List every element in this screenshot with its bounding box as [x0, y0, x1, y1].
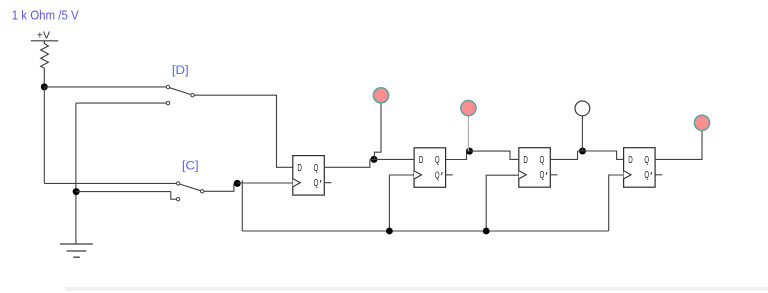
- node B: [73, 188, 80, 195]
- wire clock bus riser to U3: [486, 175, 519, 231]
- switch C top contact: [177, 182, 180, 185]
- svg-text:D: D: [523, 155, 528, 166]
- ground: [60, 244, 93, 257]
- wire switch D lower contact left: [76, 102, 166, 104]
- node A (resistor output): [41, 83, 48, 90]
- D flip-flop U4: [624, 148, 663, 188]
- LED L2 (red): [461, 101, 476, 116]
- svg-text:[C]: [C]: [182, 159, 199, 173]
- D flip-flop U2: [414, 148, 453, 188]
- svg-text:Q: Q: [540, 155, 545, 166]
- faint bottom bar: [65, 287, 768, 291]
- wire clock bus riser to U2: [389, 175, 414, 231]
- wire LED2 to node Q2 (gray): [467, 116, 469, 151]
- switch C lever: [180, 184, 201, 191]
- wire U1 Q to node Q1: [324, 159, 370, 167]
- clock bus: [242, 230, 608, 232]
- switch D common contact: [191, 94, 194, 97]
- node C (clock net): [234, 180, 241, 187]
- switch D lever: [170, 88, 191, 95]
- svg-text:Q: Q: [435, 170, 440, 181]
- wire node Q3 to U4 D input: [578, 151, 624, 159]
- svg-text:D: D: [297, 163, 302, 174]
- LED L1 (red): [373, 88, 388, 103]
- wire switch D common right: [194, 95, 293, 167]
- svg-text:Q: Q: [540, 170, 545, 181]
- wire clock bus riser to U4: [609, 175, 624, 231]
- LED L4 (red): [694, 115, 709, 130]
- wire down to node B and ground: [75, 103, 77, 244]
- svg-text:[D]: [D]: [172, 63, 189, 77]
- svg-text:1 k Ohm /5 V: 1 k Ohm /5 V: [12, 8, 79, 23]
- wire to switch C top contact: [44, 182, 176, 184]
- wire LED1 to node Q1: [374, 103, 381, 159]
- svg-text:Q: Q: [314, 178, 319, 189]
- svg-text:Q: Q: [314, 163, 319, 174]
- wire node A down: [43, 87, 45, 183]
- D flip-flop U1: [293, 156, 332, 196]
- junction bus/U2 clock: [386, 228, 393, 235]
- wire LED3 to node Q3: [581, 116, 583, 151]
- switch C lower contact: [176, 198, 179, 201]
- LED L3 (white/off): [575, 101, 590, 116]
- wire switch C common to node C: [204, 183, 234, 191]
- node Q1: [371, 156, 378, 163]
- power supply +V bar: [31, 40, 59, 42]
- svg-text:+V: +V: [37, 31, 51, 42]
- wire U3 Q to node Q3: [550, 151, 577, 159]
- junction bus/U3 clock: [483, 228, 490, 235]
- wire node Q1 to U2 D input: [370, 158, 414, 160]
- wire node C down to clock bus: [241, 180, 243, 231]
- wire U2 Q to node Q2: [446, 151, 467, 159]
- wire node Q2 to U3 D input: [467, 151, 519, 159]
- wire node B right: [76, 191, 171, 193]
- switch D top contact: [166, 85, 169, 88]
- wire node C to U1 clock: [237, 182, 292, 184]
- switch C common contact: [201, 190, 204, 193]
- wire node A to switch D top contact: [44, 86, 166, 88]
- svg-text:D: D: [419, 155, 424, 166]
- D flip-flop U3: [519, 148, 558, 188]
- resistor R1 (1 k Ohm): [41, 41, 49, 87]
- svg-text:Q: Q: [644, 155, 649, 166]
- svg-text:D: D: [628, 155, 633, 166]
- switch D lower contact: [166, 101, 169, 104]
- node Q2: [466, 148, 473, 155]
- node Q3: [579, 148, 586, 155]
- wire U4 Q to LED4: [655, 130, 702, 159]
- svg-text:Q: Q: [644, 170, 649, 181]
- svg-text:Q: Q: [435, 155, 440, 166]
- wire jog down to switch C lower contact: [171, 192, 177, 200]
